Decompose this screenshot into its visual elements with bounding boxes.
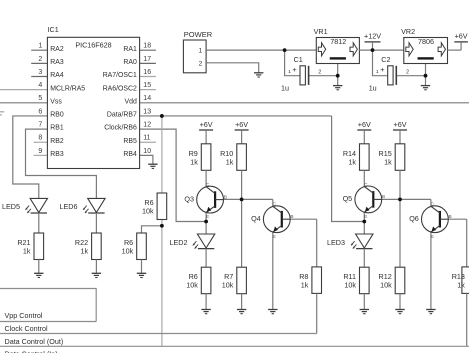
svg-text:4: 4 [38,82,42,89]
svg-text:C: C [364,182,368,188]
svg-text:RA4: RA4 [50,72,64,79]
svg-text:LED3: LED3 [327,238,345,247]
svg-text:Vdd: Vdd [125,98,137,105]
svg-text:+6V: +6V [235,120,248,129]
svg-text:1k: 1k [384,157,392,166]
svg-text:VR1: VR1 [314,27,328,36]
svg-text:RB0: RB0 [50,112,64,119]
svg-text:1: 1 [38,43,42,50]
svg-text:RB4: RB4 [123,151,137,158]
svg-text:Clock/RB6: Clock/RB6 [104,125,137,132]
svg-text:E: E [431,234,434,240]
svg-text:Vss: Vss [50,98,62,105]
svg-text:1u: 1u [281,84,289,93]
svg-text:C: C [206,182,210,188]
svg-text:+6V: +6V [394,120,407,129]
svg-text:B: B [290,214,293,220]
svg-text:2: 2 [406,69,409,75]
svg-text:VR2: VR2 [401,27,415,36]
svg-text:2: 2 [199,60,203,67]
svg-text:13: 13 [143,108,151,115]
svg-text:1: 1 [376,69,379,75]
svg-text:+6V: +6V [455,32,468,41]
svg-text:2: 2 [318,69,321,75]
svg-text:POWER: POWER [184,30,213,39]
svg-text:Data Control (In): Data Control (In) [5,350,58,353]
svg-text:PIC16F628: PIC16F628 [75,41,111,50]
svg-text:10k: 10k [142,207,154,216]
svg-text:RA3: RA3 [50,59,64,66]
svg-text:8: 8 [38,135,42,142]
svg-text:Q5: Q5 [343,194,353,203]
svg-text:1k: 1k [226,157,234,166]
svg-text:14: 14 [143,95,151,102]
svg-text:10: 10 [143,148,151,155]
svg-text:3: 3 [38,69,42,76]
svg-text:1k: 1k [301,280,309,289]
svg-text:10k: 10k [380,281,392,290]
svg-text:RA0: RA0 [123,59,137,66]
svg-text:16: 16 [143,69,151,76]
svg-text:11: 11 [143,135,150,142]
svg-text:1k: 1k [348,157,356,166]
svg-text:9: 9 [38,148,42,155]
svg-text:18: 18 [143,43,151,50]
svg-text:1k: 1k [23,247,31,256]
svg-text:17: 17 [143,56,151,63]
svg-text:LED5: LED5 [2,202,20,211]
svg-text:10k: 10k [222,281,234,290]
svg-text:15: 15 [143,82,151,89]
svg-text:5: 5 [38,95,42,102]
svg-text:1: 1 [199,48,203,55]
svg-text:10k: 10k [122,247,134,256]
svg-text:Q3: Q3 [184,194,194,203]
svg-text:RA6/OSC2: RA6/OSC2 [103,85,137,92]
svg-text:B: B [382,194,385,200]
svg-text:RB3: RB3 [50,151,64,158]
svg-text:Data Control (Out): Data Control (Out) [5,337,64,346]
svg-text:Clock Control: Clock Control [5,324,49,333]
svg-text:1u: 1u [369,84,377,93]
svg-text:12: 12 [143,122,151,129]
svg-text:+: + [380,65,384,74]
svg-text:+12V: +12V [364,32,381,41]
svg-text:1k: 1k [457,280,465,289]
svg-text:IC1: IC1 [48,25,59,34]
svg-text:1k: 1k [81,247,89,256]
svg-text:C: C [431,202,435,208]
svg-text:LED2: LED2 [170,238,188,247]
svg-text:C1: C1 [294,55,303,64]
svg-text:B: B [448,214,451,220]
svg-text:RB5: RB5 [123,138,137,145]
svg-text:LED6: LED6 [60,202,78,211]
svg-text:RB2: RB2 [50,138,64,145]
svg-text:E: E [364,214,367,220]
svg-text:RA7/OSC1: RA7/OSC1 [103,72,137,79]
svg-text:E: E [273,234,276,240]
svg-text:C: C [272,202,276,208]
svg-text:E: E [206,214,209,220]
svg-text:1: 1 [288,69,291,75]
svg-text:Vpp Control: Vpp Control [5,311,43,320]
svg-text:2: 2 [38,56,42,63]
svg-text:+6V: +6V [200,120,213,129]
svg-text:C2: C2 [381,55,390,64]
svg-text:7812: 7812 [330,37,346,46]
svg-text:10k: 10k [186,281,198,290]
svg-text:RA1: RA1 [123,46,137,53]
svg-text:1k: 1k [190,157,198,166]
svg-text:RA2: RA2 [50,46,64,53]
svg-text:7806: 7806 [418,37,434,46]
svg-text:RB1: RB1 [50,125,64,132]
svg-text:Data/RB7: Data/RB7 [107,112,137,119]
svg-text:10k: 10k [344,281,356,290]
svg-text:7: 7 [38,122,42,129]
svg-text:+: + [292,65,296,74]
svg-text:Q4: Q4 [251,214,261,223]
svg-text:6: 6 [38,108,42,115]
svg-text:Q6: Q6 [409,214,419,223]
svg-text:MCLR/RA5: MCLR/RA5 [50,85,85,92]
svg-text:+6V: +6V [358,120,371,129]
svg-text:B: B [224,194,227,200]
